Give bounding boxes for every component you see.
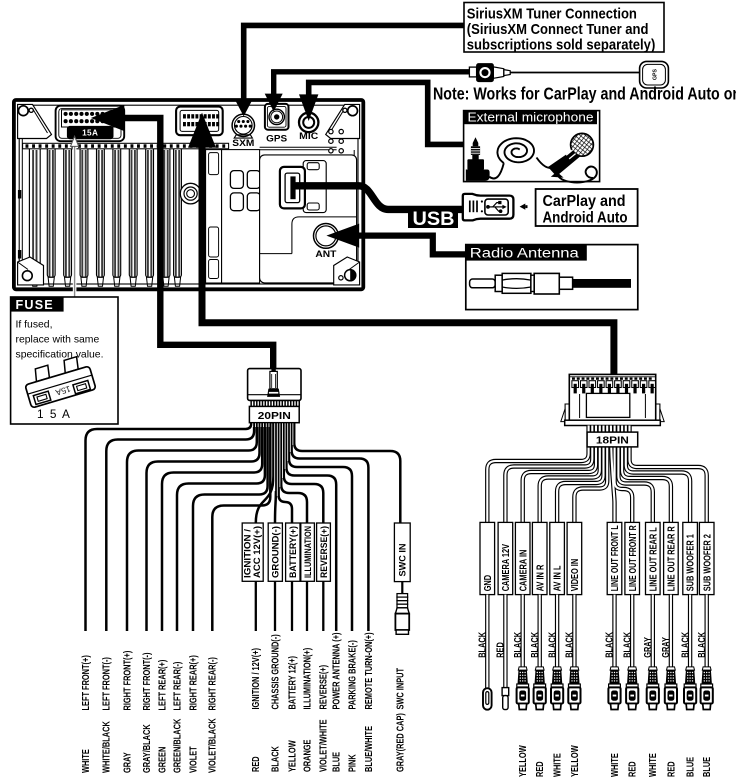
svg-text:GPS: GPS bbox=[652, 69, 658, 80]
svg-text:GPS: GPS bbox=[266, 133, 287, 143]
svg-text:LINE OUT REAR L: LINE OUT REAR L bbox=[648, 527, 659, 591]
svg-text:YELLOW: YELLOW bbox=[518, 745, 529, 777]
svg-text:replace with same: replace with same bbox=[16, 335, 100, 346]
svg-text:WHITE: WHITE bbox=[553, 753, 564, 777]
svg-text:REVERSE(+): REVERSE(+) bbox=[318, 526, 329, 578]
svg-text:BLACK: BLACK bbox=[622, 631, 633, 657]
svg-text:GRAY/BLACK: GRAY/BLACK bbox=[142, 724, 153, 773]
svg-text:specification value.: specification value. bbox=[16, 350, 104, 361]
svg-text:RED: RED bbox=[666, 761, 677, 777]
svg-text:RIGHT REAR(-): RIGHT REAR(-) bbox=[208, 657, 219, 710]
svg-text:subscriptions sold separately): subscriptions sold separately) bbox=[467, 38, 656, 54]
svg-text:RED: RED bbox=[496, 642, 507, 658]
svg-text:BLUE: BLUE bbox=[686, 757, 697, 777]
svg-text:GND: GND bbox=[483, 575, 494, 591]
svg-text:CHASSIS GROUND(-): CHASSIS GROUND(-) bbox=[270, 634, 281, 709]
svg-text:CarPlay and: CarPlay and bbox=[543, 193, 626, 210]
svg-text:BLACK: BLACK bbox=[697, 631, 708, 657]
svg-text:YELLOW: YELLOW bbox=[570, 745, 581, 777]
svg-text:MIC: MIC bbox=[299, 131, 318, 141]
svg-text:(SiriusXM Connect Tuner and: (SiriusXM Connect Tuner and bbox=[467, 22, 649, 38]
svg-text:SiriusXM Tuner Connection: SiriusXM Tuner Connection bbox=[467, 6, 637, 22]
svg-text:LEFT REAR(+): LEFT REAR(+) bbox=[157, 660, 168, 711]
svg-text:SWC INPUT: SWC INPUT bbox=[396, 668, 407, 710]
svg-text:LEFT REAR(-): LEFT REAR(-) bbox=[172, 662, 183, 711]
svg-text:RIGHT FRONT(-): RIGHT FRONT(-) bbox=[142, 653, 153, 711]
svg-text:BATTERY(+): BATTERY(+) bbox=[287, 526, 298, 578]
svg-text:ILLUMINATION: ILLUMINATION bbox=[302, 526, 313, 578]
svg-text:POWER ANTENNA (+): POWER ANTENNA (+) bbox=[332, 633, 343, 710]
svg-text:LEFT FRONT(+): LEFT FRONT(+) bbox=[81, 655, 92, 710]
svg-text:GRAY: GRAY bbox=[122, 752, 133, 773]
svg-text:ANT: ANT bbox=[315, 249, 336, 259]
svg-text:GREEN/BLACK: GREEN/BLACK bbox=[172, 718, 183, 773]
svg-text:LEFT FRONT(-): LEFT FRONT(-) bbox=[102, 657, 113, 710]
svg-text:GRAY: GRAY bbox=[643, 637, 654, 658]
svg-text:CAMERA 12V: CAMERA 12V bbox=[501, 544, 512, 592]
svg-text:20PIN: 20PIN bbox=[258, 411, 291, 422]
svg-text:SWC IN: SWC IN bbox=[397, 543, 408, 576]
svg-text:LINE OUT FRONT R: LINE OUT FRONT R bbox=[628, 525, 639, 592]
svg-text:1 5 A: 1 5 A bbox=[37, 407, 71, 421]
svg-text:RIGHT REAR(+): RIGHT REAR(+) bbox=[188, 655, 199, 710]
svg-text:BLACK: BLACK bbox=[547, 631, 558, 657]
svg-text:WHITE: WHITE bbox=[81, 749, 92, 773]
svg-text:PINK: PINK bbox=[347, 754, 358, 772]
svg-text:WHITE/BLACK: WHITE/BLACK bbox=[102, 721, 113, 773]
svg-text:RED: RED bbox=[535, 761, 546, 777]
svg-text:15A: 15A bbox=[82, 128, 98, 137]
svg-text:IGNITION / 12V(+): IGNITION / 12V(+) bbox=[251, 648, 262, 710]
svg-text:BLACK: BLACK bbox=[680, 631, 691, 657]
svg-text:VIOLET: VIOLET bbox=[188, 746, 199, 773]
svg-text:BLACK: BLACK bbox=[530, 631, 541, 657]
svg-text:ORANGE: ORANGE bbox=[302, 739, 313, 772]
svg-text:RIGHT FRONT(+): RIGHT FRONT(+) bbox=[122, 651, 133, 711]
svg-text:If fused,: If fused, bbox=[16, 320, 53, 331]
svg-text:WHITE: WHITE bbox=[610, 753, 621, 777]
svg-text:Radio Antenna: Radio Antenna bbox=[470, 246, 579, 262]
svg-text:Note: Works for CarPlay and An: Note: Works for CarPlay and Android Auto… bbox=[433, 84, 736, 104]
svg-text:BLACK: BLACK bbox=[478, 631, 489, 657]
svg-text:BATTERY 12(+): BATTERY 12(+) bbox=[287, 656, 298, 710]
svg-text:REVERSE(+): REVERSE(+) bbox=[319, 665, 330, 710]
svg-text:LINE OUT REAR R: LINE OUT REAR R bbox=[667, 526, 678, 592]
svg-text:BLACK: BLACK bbox=[565, 631, 576, 657]
svg-text:GREEN: GREEN bbox=[157, 747, 168, 773]
svg-text:WHITE: WHITE bbox=[648, 753, 659, 777]
svg-text:VIDEO IN: VIDEO IN bbox=[570, 559, 581, 592]
svg-text:REMOTE TURN-ON(+): REMOTE TURN-ON(+) bbox=[364, 632, 375, 709]
svg-text:AV IN L: AV IN L bbox=[553, 566, 564, 592]
svg-text:GRAY(RED CAP): GRAY(RED CAP) bbox=[396, 713, 407, 772]
svg-text:SXM: SXM bbox=[232, 138, 254, 148]
svg-text:BLUE: BLUE bbox=[332, 752, 343, 772]
svg-text:CAMERA IN: CAMERA IN bbox=[518, 550, 529, 592]
svg-text:RED: RED bbox=[628, 761, 639, 777]
svg-text:VIOLET/BLACK: VIOLET/BLACK bbox=[208, 718, 219, 773]
svg-text:PARKING BRAKE(-): PARKING BRAKE(-) bbox=[347, 640, 358, 709]
svg-text:ACC 12V(+): ACC 12V(+) bbox=[251, 526, 262, 578]
svg-text:BLACK: BLACK bbox=[513, 631, 524, 657]
svg-text:BLACK: BLACK bbox=[605, 631, 616, 657]
svg-text:ILLUMINATION(+): ILLUMINATION(+) bbox=[302, 648, 313, 710]
svg-text:GRAY: GRAY bbox=[661, 637, 672, 658]
svg-text:LINE OUT FRONT L: LINE OUT FRONT L bbox=[610, 525, 621, 591]
svg-text:GROUND(-): GROUND(-) bbox=[270, 526, 281, 578]
svg-text:BLUE/WHITE: BLUE/WHITE bbox=[364, 726, 375, 772]
svg-text:FUSE: FUSE bbox=[16, 298, 54, 312]
svg-text:Android Auto: Android Auto bbox=[543, 209, 628, 226]
svg-text:USB: USB bbox=[413, 209, 455, 230]
svg-text:External microphone: External microphone bbox=[468, 111, 594, 125]
svg-text:YELLOW: YELLOW bbox=[287, 740, 298, 772]
svg-text:BLUE: BLUE bbox=[702, 757, 713, 777]
svg-text:SUB WOOFER 1: SUB WOOFER 1 bbox=[686, 534, 697, 592]
svg-text:18PIN: 18PIN bbox=[596, 436, 629, 447]
svg-text:SUB WOOFER 2: SUB WOOFER 2 bbox=[702, 534, 713, 592]
svg-text:BLACK: BLACK bbox=[270, 746, 281, 772]
svg-text:AV IN R: AV IN R bbox=[535, 564, 546, 591]
svg-text:RED: RED bbox=[251, 756, 262, 772]
svg-text:VIOLET/WHITE: VIOLET/WHITE bbox=[319, 719, 330, 772]
